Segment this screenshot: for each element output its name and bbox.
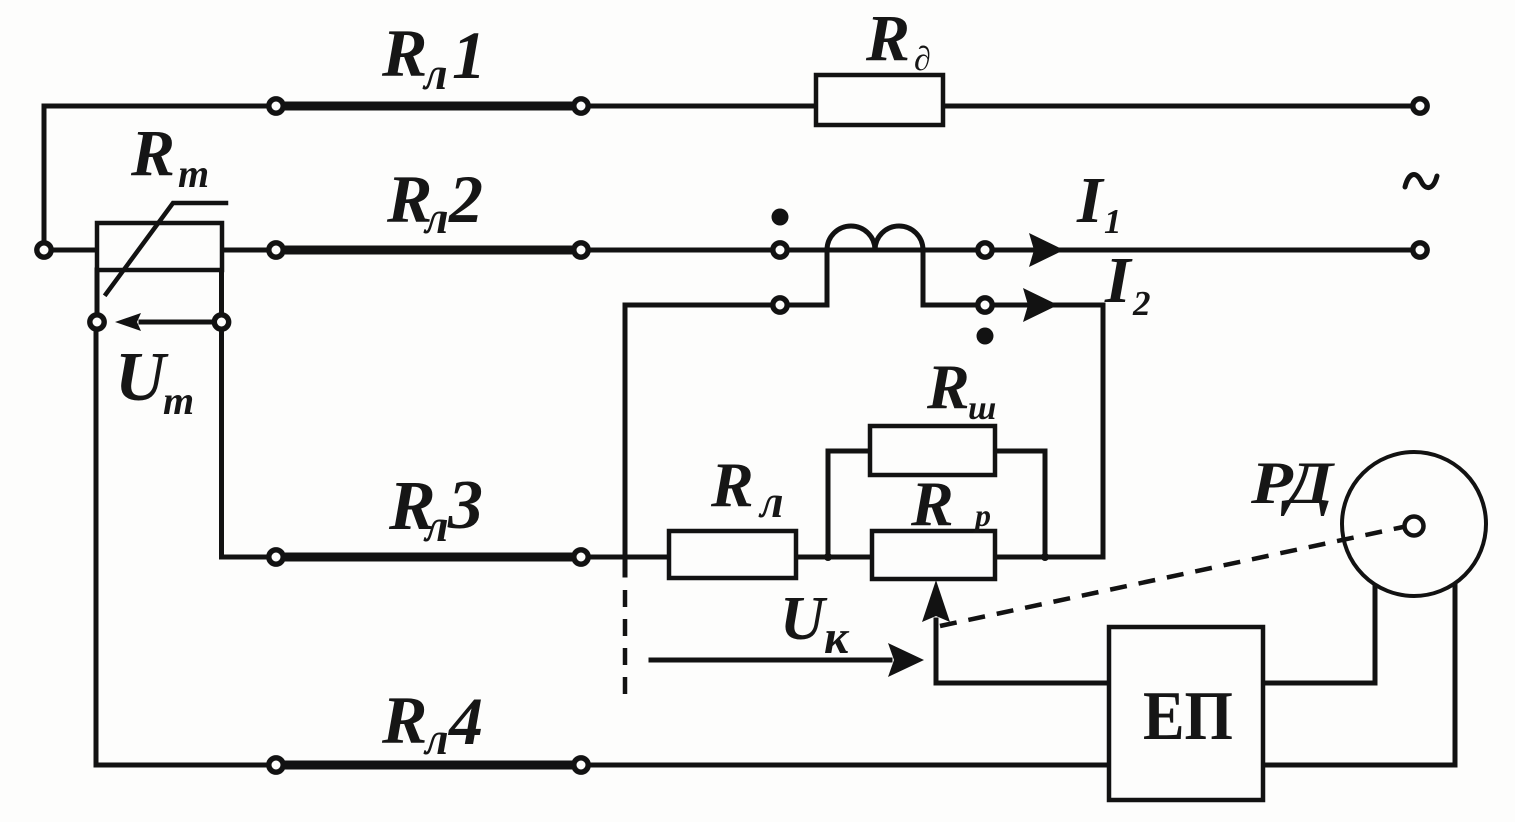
svg-text:∂: ∂: [914, 41, 931, 78]
svg-text:R: R: [130, 117, 175, 190]
svg-text:R: R: [910, 468, 954, 539]
svg-text:2: 2: [448, 161, 483, 237]
svg-text:л: л: [423, 500, 449, 551]
svg-text:ЕП: ЕП: [1143, 678, 1233, 755]
svg-text:л: л: [758, 476, 784, 527]
svg-text:3: 3: [447, 467, 483, 544]
svg-text:л: л: [422, 48, 448, 99]
svg-text:1: 1: [1104, 202, 1122, 241]
svg-text:I: I: [1076, 164, 1105, 237]
svg-text:R: R: [865, 2, 910, 75]
svg-text:л: л: [423, 713, 449, 764]
svg-text:U: U: [780, 585, 828, 653]
svg-text:R: R: [926, 351, 970, 422]
svg-text:РД: РД: [1250, 450, 1335, 516]
svg-text:к: к: [824, 611, 850, 664]
svg-text:2: 2: [1132, 284, 1151, 323]
svg-text:R: R: [381, 682, 427, 758]
svg-text:ш: ш: [968, 390, 996, 427]
svg-text:I: I: [1104, 244, 1133, 317]
svg-text:R: R: [710, 449, 754, 520]
svg-text:р: р: [972, 497, 991, 533]
svg-text:т: т: [178, 151, 209, 196]
svg-text:л: л: [423, 192, 449, 243]
svg-text:R: R: [381, 15, 427, 91]
svg-text:U: U: [115, 339, 169, 416]
svg-text:4: 4: [447, 683, 483, 759]
svg-text:1: 1: [452, 17, 486, 93]
svg-text:т: т: [163, 378, 194, 423]
